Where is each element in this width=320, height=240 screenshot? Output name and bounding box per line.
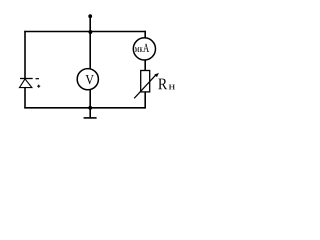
wire junction to voltmeter	[89, 32, 91, 69]
ground bar	[84, 117, 97, 119]
rheostat arrow	[134, 74, 156, 98]
node junction bottom	[88, 106, 92, 110]
label R	[158, 79, 167, 90]
wire left vertical (diode anode to bottom wire)	[24, 88, 26, 109]
microammeter label mkA	[135, 47, 139, 52]
diode VD (anode triangle)	[20, 79, 32, 88]
wire ammeter to rheostat	[144, 60, 146, 71]
ground stem	[89, 108, 91, 118]
voltmeter letter V	[86, 75, 94, 84]
diode VD (cathode bar)	[20, 78, 33, 80]
wire input stub	[89, 16, 91, 31]
microammeter PA1 circle	[133, 38, 155, 60]
terminal dot (input)	[88, 14, 92, 18]
wire top-right corner down to ammeter	[144, 31, 146, 38]
label subscript n	[169, 85, 175, 90]
wire left vertical (top corner to diode cathode)	[24, 31, 26, 79]
wire rheostat to bottom wire	[144, 92, 146, 109]
node junction top	[88, 30, 92, 34]
wire top horizontal	[24, 31, 146, 33]
voltmeter PV1 circle	[77, 69, 98, 90]
wire bottom horizontal	[24, 107, 146, 109]
wire voltmeter to bottom junction	[89, 90, 91, 108]
rheostat Rn body	[141, 71, 150, 92]
rheostat arrow head	[154, 73, 159, 77]
label plus polarity	[37, 85, 40, 88]
label minus polarity	[36, 78, 40, 80]
